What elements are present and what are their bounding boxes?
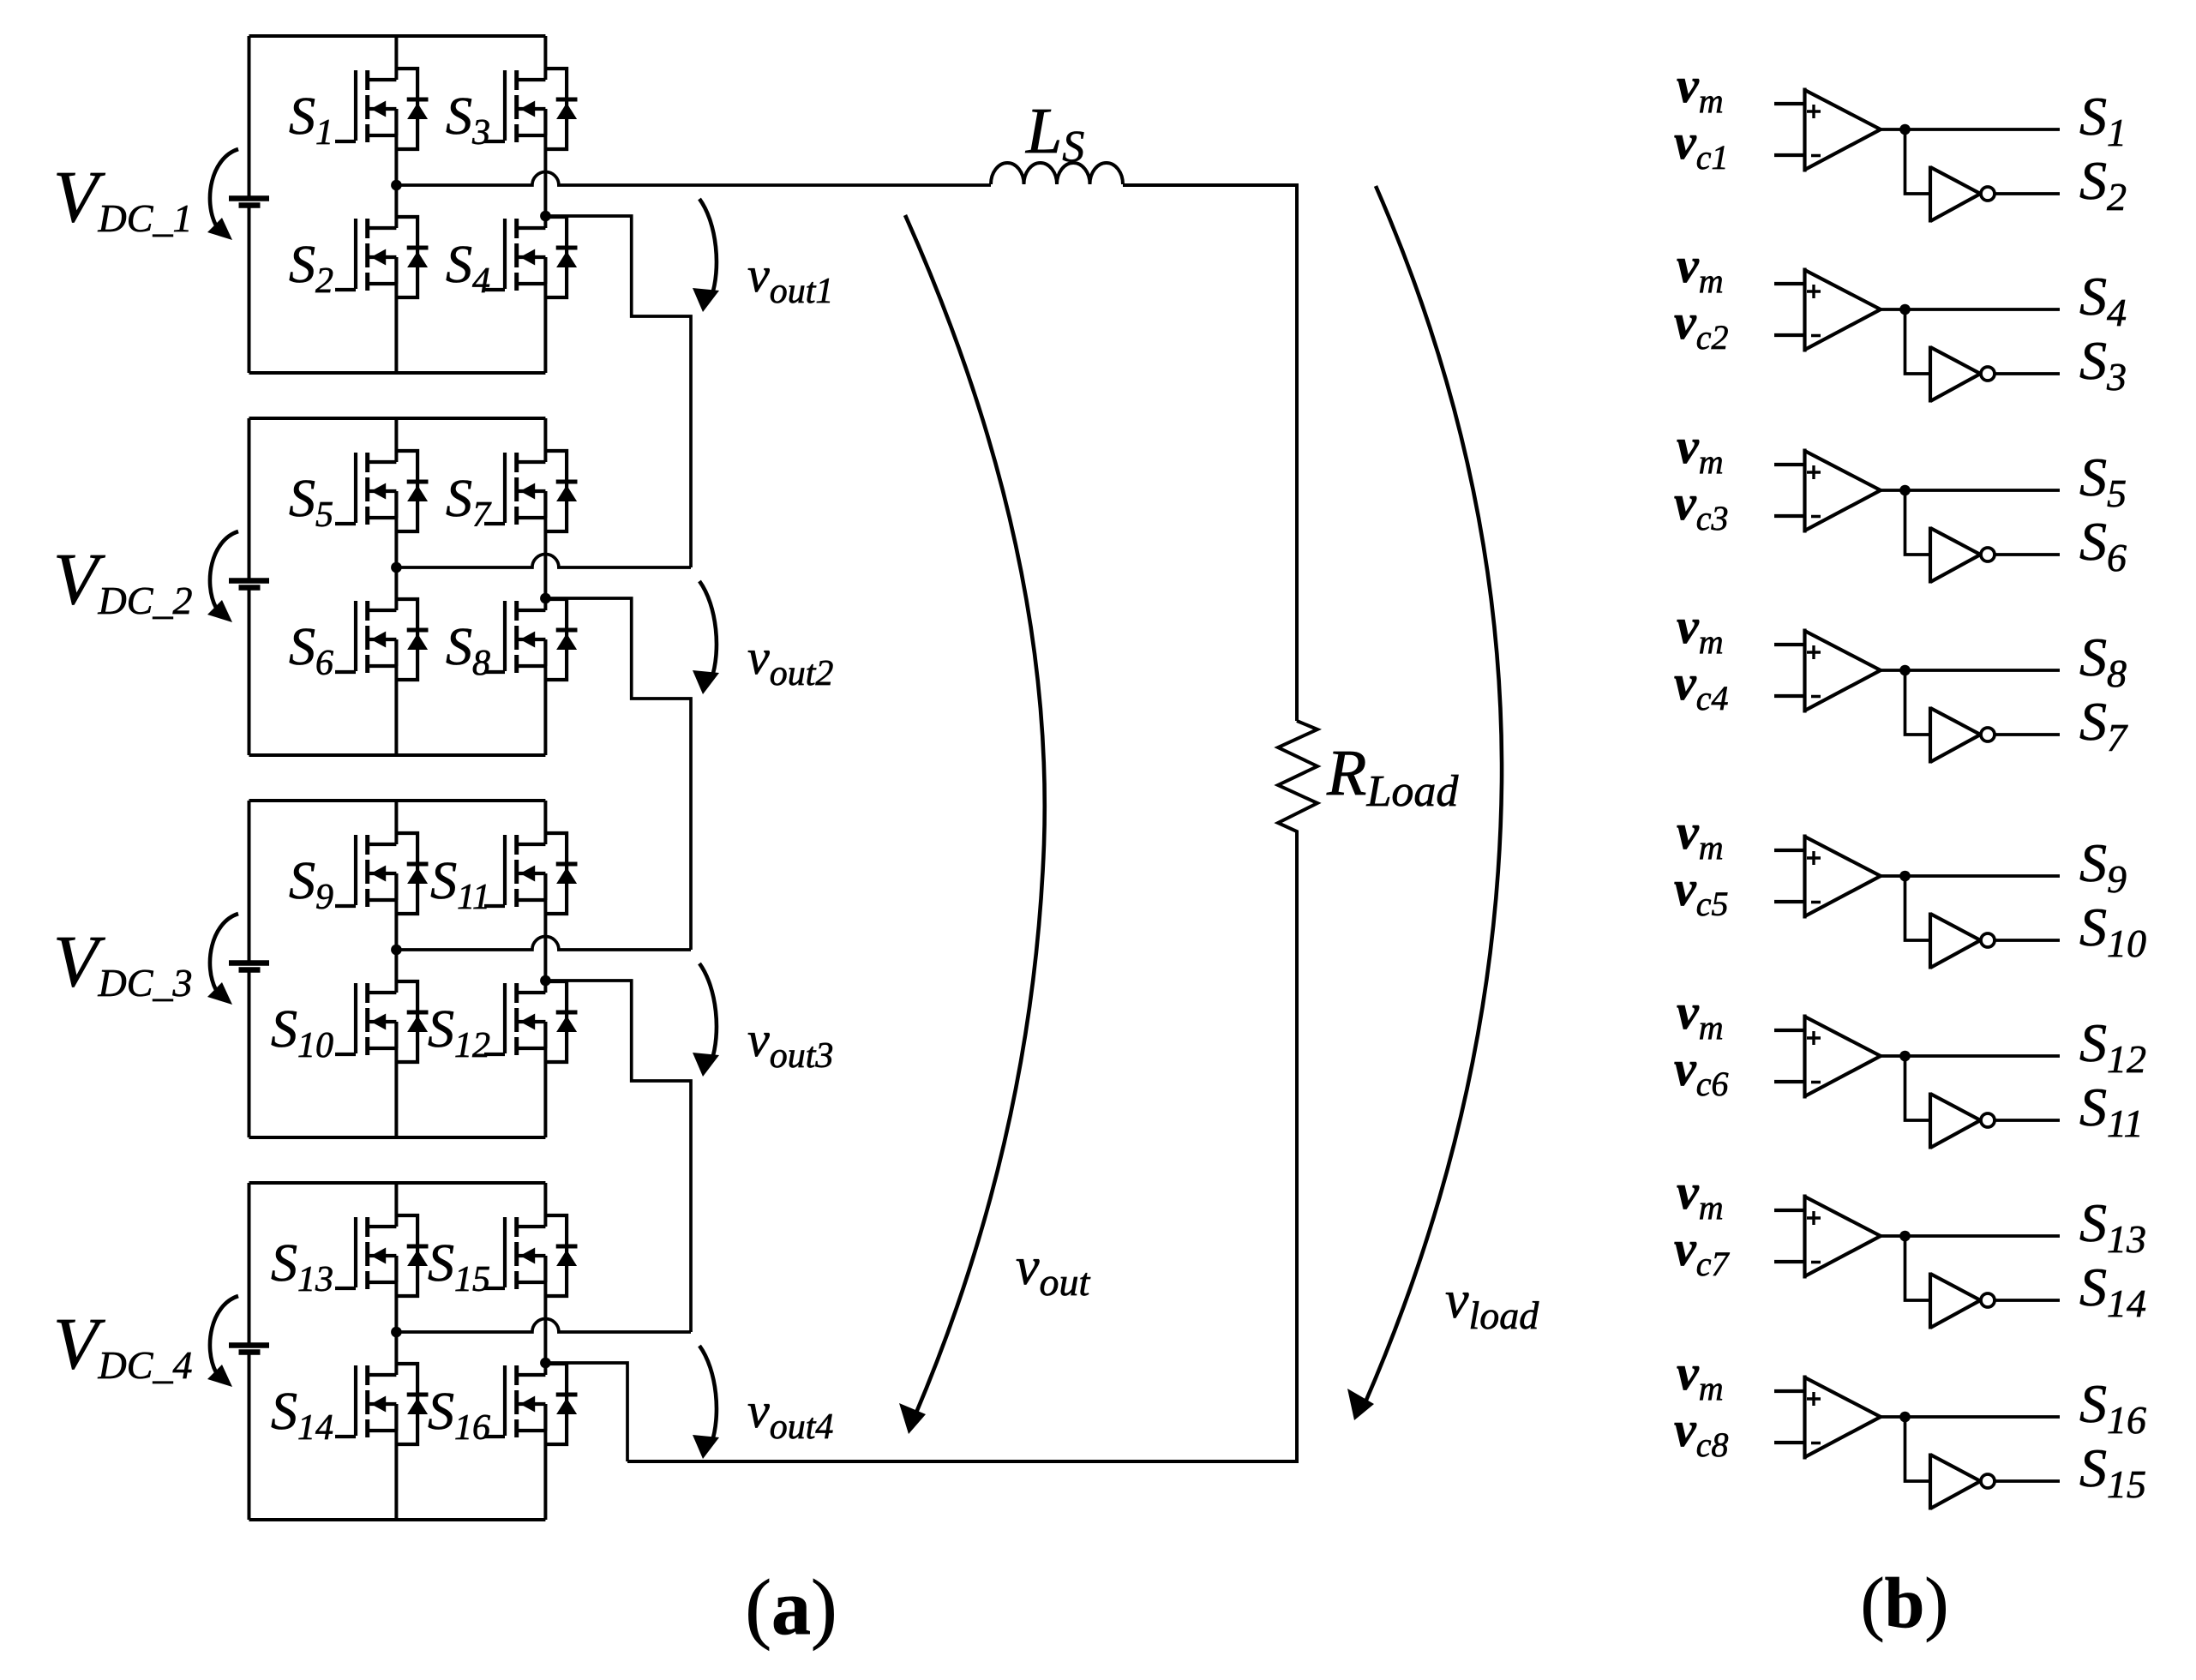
- svg-text:(b): (b): [1861, 1563, 1949, 1643]
- svg-text:(a): (a): [745, 1563, 837, 1651]
